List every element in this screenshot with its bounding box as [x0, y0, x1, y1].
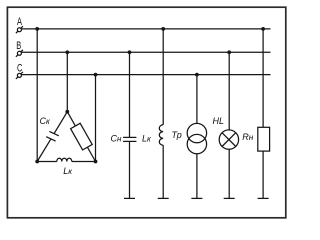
svg-text:A: A [17, 16, 23, 28]
svg-text:Cк: Cк [40, 116, 52, 126]
svg-text:B: B [16, 40, 21, 52]
svg-text:Lк: Lк [63, 166, 73, 176]
svg-text:Rн: Rн [242, 132, 254, 142]
svg-text:Тр: Тр [172, 130, 182, 140]
svg-text:HL: HL [213, 116, 225, 126]
svg-text:C: C [17, 62, 23, 74]
svg-text:Lк: Lк [142, 133, 152, 143]
svg-text:Cн: Cн [111, 133, 123, 143]
